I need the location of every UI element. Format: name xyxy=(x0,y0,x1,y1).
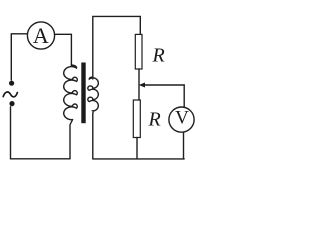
svg-text:R: R xyxy=(148,109,161,131)
svg-text:A: A xyxy=(33,23,49,48)
svg-text:V: V xyxy=(175,108,189,129)
svg-text:R: R xyxy=(152,45,165,67)
